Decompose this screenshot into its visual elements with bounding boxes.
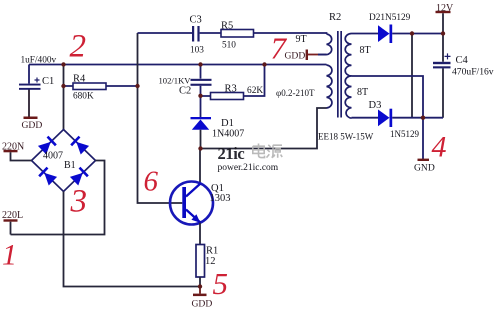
svg-text:510: 510 (222, 41, 236, 51)
svg-text:C4: C4 (456, 55, 469, 66)
svg-text:C2: C2 (179, 86, 191, 97)
ground GDD node 5 (192, 287, 213, 310)
wire main bus node 2 (29, 64, 327, 66)
wire R5 to 9T winding (254, 33, 327, 34)
resistor R5 (221, 20, 254, 50)
wire C1 to ground (28, 90, 30, 118)
wire D2 to 12V (392, 33, 443, 35)
svg-text:62K: 62K (247, 86, 263, 96)
svg-text:1uF/400v: 1uF/400v (21, 56, 57, 66)
wire bridge bottom to ground bus (64, 192, 201, 287)
bridge rectifier B1 (32, 130, 96, 192)
svg-text:C1: C1 (42, 76, 54, 87)
wire R1 to ground (199, 277, 201, 287)
junction node dots (61, 31, 445, 288)
terminal 220N (2, 142, 32, 161)
svg-text:8T: 8T (360, 45, 371, 56)
wire C3 to R5 (200, 32, 221, 34)
terminal 12V (436, 3, 455, 34)
transistor Q1 (170, 149, 231, 225)
svg-text:1N5129: 1N5129 (390, 129, 419, 139)
svg-text:470uF/16v: 470uF/16v (452, 67, 494, 78)
diode D2 (369, 13, 411, 43)
wire 220L to bridge right tip (11, 161, 105, 235)
svg-text:D1: D1 (221, 118, 234, 129)
diode bridge bottom-right (70, 167, 89, 186)
wire bridge top to bus (63, 65, 65, 130)
capacitor C4 (433, 34, 494, 118)
resistor R3 (201, 65, 265, 100)
svg-text:4: 4 (432, 131, 447, 164)
transformer 9T winding (327, 34, 332, 55)
watermark hanzi dian (253, 144, 265, 158)
watermark hanzi yuan (267, 145, 283, 158)
wire 9T bottom lead (318, 54, 327, 56)
resistor R4 (64, 73, 138, 101)
diode D3 (369, 100, 420, 139)
svg-text:2: 2 (70, 29, 87, 65)
wire emitter to R1 (199, 223, 201, 245)
diode bridge top-right (70, 136, 89, 155)
svg-text:R5: R5 (221, 20, 233, 31)
wire 8T top lead to D2 (352, 33, 379, 35)
svg-text:1N4007: 1N4007 (212, 129, 244, 140)
resistor R1 (196, 245, 218, 278)
diode bridge bottom-left (38, 167, 57, 186)
svg-text:3: 3 (70, 184, 88, 220)
svg-text:102/1KV: 102/1KV (159, 75, 192, 85)
svg-text:6: 6 (144, 166, 159, 198)
svg-text:680K: 680K (73, 92, 94, 102)
svg-text:R3: R3 (225, 83, 237, 94)
svg-text:GDD: GDD (192, 298, 213, 309)
wire feedback vertical to Q1 base (138, 33, 183, 203)
svg-text:5: 5 (213, 266, 229, 301)
wire D3 output row to C4 bottom (392, 117, 443, 119)
diode bridge top-left (38, 136, 57, 155)
wire collector row to transformer primary (201, 108, 327, 149)
svg-text:R4: R4 (73, 73, 86, 84)
svg-text:D3: D3 (369, 100, 382, 111)
wire 8T bottom lead to D3 (352, 117, 379, 119)
svg-text:4007: 4007 (43, 151, 63, 162)
svg-text:EE18 5W-15W: EE18 5W-15W (318, 132, 374, 142)
ground GND node 4 (414, 159, 435, 174)
diode D1 (191, 96, 245, 149)
capacitor C2 (159, 65, 212, 97)
svg-text:GDD: GDD (22, 120, 43, 131)
svg-text:9T: 9T (296, 34, 307, 45)
wire top line to C3 (138, 32, 193, 34)
svg-text:C3: C3 (190, 15, 202, 26)
svg-text:GND: GND (414, 163, 435, 174)
svg-text:1303: 1303 (210, 193, 231, 204)
svg-text:21ic: 21ic (218, 144, 245, 163)
svg-text:GDD: GDD (285, 50, 306, 61)
svg-text:D21N5129: D21N5129 (369, 13, 411, 23)
capacitor C1 (19, 78, 41, 90)
wire bus to C1 (28, 65, 30, 84)
svg-text:8T: 8T (357, 87, 368, 98)
capacitor C3 (190, 15, 205, 56)
wire center tap to ground (352, 76, 424, 159)
svg-text:power.21ic.com: power.21ic.com (218, 163, 279, 173)
terminal 220L (2, 210, 23, 235)
transformer 210T primary winding (276, 65, 332, 108)
ground GDD under C1 (22, 117, 43, 132)
transformer T1 core (329, 12, 342, 118)
svg-text:7: 7 (271, 30, 288, 65)
watermark 21ic (218, 144, 283, 173)
svg-text:12V: 12V (436, 3, 454, 14)
svg-text:φ0.2-210T: φ0.2-210T (276, 88, 315, 98)
svg-text:B1: B1 (64, 160, 76, 171)
svg-text:R2: R2 (329, 12, 341, 23)
wire D3 cathode riser to 12V rail (411, 34, 413, 118)
node 7 GDD terminal (285, 50, 327, 62)
transformer secondary 8T+8T winding (345, 34, 370, 119)
svg-text:R1: R1 (206, 245, 218, 256)
svg-text:1: 1 (2, 239, 17, 272)
svg-text:103: 103 (190, 46, 204, 56)
